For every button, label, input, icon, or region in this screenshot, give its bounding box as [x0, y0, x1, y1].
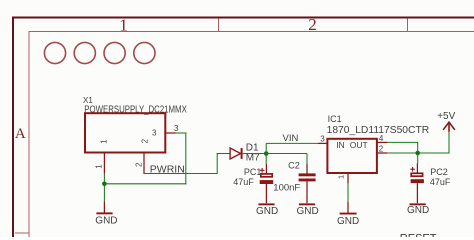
wire junction right toward C2	[266, 153, 307, 155]
svg-text:C2: C2	[288, 160, 300, 170]
svg-text:GND: GND	[407, 205, 429, 216]
wire junction down to PC2	[417, 153, 419, 164]
capacitor C2 plate 1	[299, 173, 316, 176]
IC1 pin 3 stub	[318, 142, 327, 144]
wire IC1 pin1 to ground	[347, 183, 349, 202]
mounting hole H3	[104, 42, 125, 63]
wire to D1 anode	[217, 153, 230, 155]
X1 pin 3	[166, 132, 176, 134]
svg-text:GND: GND	[297, 206, 319, 217]
diode D1 cathode bar	[241, 148, 243, 159]
power jack X1 body	[85, 113, 165, 152]
wire down to C2	[306, 154, 308, 165]
svg-text:IC1: IC1	[328, 114, 342, 124]
svg-text:RESET: RESET	[400, 233, 437, 237]
svg-text:PWRIN: PWRIN	[150, 164, 185, 176]
capacitor PC2 bottom plate	[411, 179, 424, 183]
capacitor PC2 plus sign	[410, 167, 415, 172]
capacitor PC1 bottom plate	[260, 180, 274, 184]
junction node (X1 pin1 / GND)	[102, 182, 107, 187]
PC1 bottom pin	[265, 184, 267, 203]
capacitor PC2 top plate	[411, 173, 422, 176]
capacitor PC1 top plate	[261, 174, 272, 177]
ground symbol (PC1)	[258, 203, 274, 205]
regulator IC1 body	[327, 139, 377, 173]
C2 top pin	[306, 164, 308, 174]
mounting hole H2	[74, 42, 95, 63]
IC1 value label 1870_LD1117S50CTR	[327, 125, 430, 136]
wire across to pin1 junction	[104, 183, 186, 185]
wire up to +5V symbol	[448, 132, 450, 154]
svg-text:2: 2	[134, 162, 143, 167]
svg-text:4: 4	[379, 134, 384, 143]
ground symbol (PC2)	[410, 203, 426, 205]
svg-text:VIN: VIN	[283, 133, 299, 144]
svg-text:1: 1	[94, 164, 103, 169]
svg-text:A: A	[15, 126, 26, 142]
wire corner up to diode level	[216, 154, 218, 175]
IC1 pin 2 stub	[377, 152, 387, 154]
connector X1 value label POWERSUPPLY_DC21MMX	[84, 104, 187, 115]
wire pin4 right	[387, 141, 417, 143]
svg-text:+5V: +5V	[437, 111, 455, 122]
IC1 pin 4 stub	[377, 141, 387, 143]
ground symbol (C2)	[299, 203, 315, 205]
svg-text:1: 1	[119, 15, 128, 34]
ground symbol (X1 net)	[96, 212, 112, 214]
svg-text:100nF: 100nF	[273, 182, 300, 193]
ground pin (X1 net)	[103, 202, 105, 213]
X1 pin 2	[143, 153, 145, 174]
svg-text:PC2: PC2	[430, 167, 448, 177]
svg-text:PC1: PC1	[244, 167, 262, 177]
IC1 pin 1 stub	[347, 173, 349, 183]
wire junction right	[418, 152, 449, 154]
svg-text:3: 3	[320, 134, 325, 143]
svg-text:GND: GND	[337, 216, 359, 227]
svg-text:GND: GND	[256, 206, 278, 217]
junction node VIN	[264, 151, 269, 156]
junction node +5V net	[415, 151, 420, 156]
svg-text:47uF: 47uF	[430, 177, 451, 187]
ground symbol (IC1)	[340, 213, 357, 215]
svg-text:M7: M7	[246, 152, 260, 163]
mounting hole H4	[134, 42, 155, 63]
capacitor C2 plate 2	[299, 179, 316, 182]
wire pin3 stub	[176, 132, 187, 134]
mounting hole H1	[44, 42, 65, 63]
svg-text:3: 3	[152, 129, 157, 138]
svg-text:OUT: OUT	[350, 140, 368, 150]
PC1 top pin	[265, 164, 267, 173]
wire pin3 corner down	[185, 132, 187, 184]
ground pin (IC1)	[347, 202, 349, 213]
svg-text:IN: IN	[336, 140, 345, 150]
svg-text:1870_LD1117S50CTR: 1870_LD1117S50CTR	[327, 125, 430, 136]
svg-text:GND: GND	[95, 216, 117, 227]
wire PWRIN: pin2 to corner	[143, 173, 217, 175]
PC2 bottom pin	[416, 183, 418, 203]
svg-text:1: 1	[99, 139, 108, 144]
wire D1 cathode to VIN junction	[243, 153, 267, 155]
wire junction to ground	[103, 184, 105, 202]
C2 bottom pin	[306, 181, 308, 203]
svg-text:2: 2	[308, 15, 317, 34]
svg-text:3: 3	[174, 124, 179, 133]
wire pin4 corner down	[417, 142, 419, 153]
capacitor PC1 plus sign	[260, 168, 265, 173]
wire pin2 right	[387, 152, 417, 154]
wire junction down to PC1	[265, 154, 267, 165]
svg-text:47uF: 47uF	[233, 177, 254, 187]
+5V supply symbol arrow	[443, 122, 455, 132]
svg-text:1: 1	[337, 175, 346, 179]
wire junction up to VIN level	[265, 143, 267, 153]
svg-text:2: 2	[379, 144, 384, 153]
PC2 top pin	[416, 164, 418, 173]
diode D1 triangle	[230, 148, 241, 159]
wire VIN to IC1	[266, 142, 318, 144]
svg-text:2: 2	[140, 138, 149, 143]
X1 pin 1	[103, 153, 105, 174]
wire pin1 down to junction	[103, 174, 105, 184]
